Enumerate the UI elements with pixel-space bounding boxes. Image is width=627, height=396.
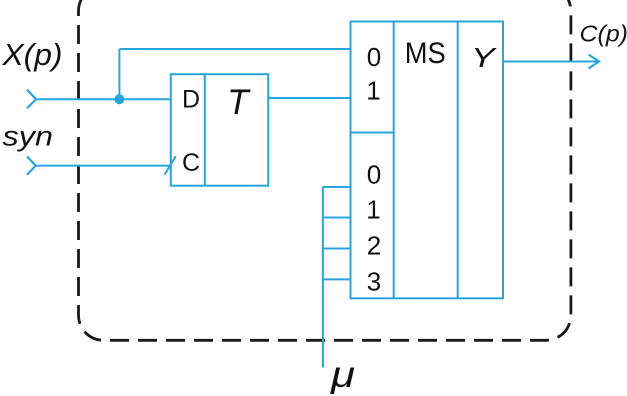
mu tick 3 [323,278,351,280]
svg-text:C(p): C(p) [580,21,627,47]
svg-text:syn: syn [3,121,54,152]
mu tick 2 [323,248,351,250]
svg-text:C: C [182,149,200,177]
dashed system boundary [79,0,571,340]
svg-text:1: 1 [366,76,380,106]
flip-flop T box [171,74,268,186]
wire X(p) input to D [36,98,171,100]
svg-text:3: 3 [367,266,381,296]
svg-text:0: 0 [367,160,381,190]
mu tick 0 [323,186,351,188]
wire T output to mux input 1 [268,97,350,99]
mux section divider [351,132,394,134]
mux divider 1 [393,22,395,299]
mux divider 2 [457,22,459,299]
wire syn to C [36,165,171,167]
flip-flop divider [204,74,206,186]
svg-text:0: 0 [367,42,381,72]
mu tick 1 [323,217,351,219]
svg-text:1: 1 [366,194,380,224]
wire Y output [503,61,598,63]
output arrowhead [589,55,600,69]
node junction dot [114,94,124,104]
svg-text:T: T [227,83,251,122]
svg-text:Y: Y [471,42,498,73]
input arrow syn [27,156,36,174]
svg-text:MS: MS [405,37,446,70]
multiplexer MS box [351,22,504,299]
mu select bracket vertical [322,187,324,368]
svg-text:X(p): X(p) [1,37,62,72]
clock edge slash [165,156,176,175]
svg-text:D: D [182,86,200,114]
wire node branch to mux input 0 [119,48,350,50]
wire node branch vertical [118,49,120,99]
svg-text:2: 2 [367,230,381,260]
svg-text:μ: μ [330,354,355,395]
input arrow X(p) [27,90,36,109]
